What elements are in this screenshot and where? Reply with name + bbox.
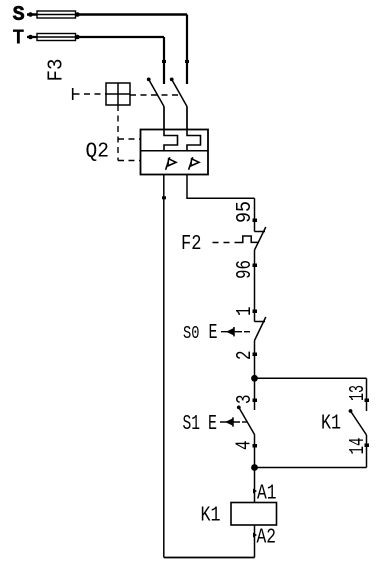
wire S vertical drop (186, 15, 188, 85)
dashed link F2 (213, 242, 237, 244)
overload box Q2 (141, 130, 209, 175)
terminal tick pole S (185, 60, 189, 63)
svg-text:K1: K1 (201, 505, 221, 528)
wire T vertical drop (163, 37, 165, 84)
wire junction to coil (254, 468, 256, 503)
junction node top (251, 375, 258, 382)
wire S horizontal (27, 13, 187, 16)
svg-text:Q2: Q2 (86, 141, 110, 164)
coil K1 (231, 503, 277, 526)
svg-text:3: 3 (234, 395, 257, 405)
contact S0 NC stop button (255, 317, 266, 341)
svg-text:A2: A2 (257, 527, 277, 550)
svg-text:4: 4 (234, 441, 257, 451)
terminal 14 tick (365, 444, 370, 448)
dashed link to overload box top (118, 138, 141, 140)
wire pole2 drop to control (187, 175, 255, 199)
wire S0 to junction (254, 341, 256, 379)
breaker Q2 manual actuator bar (72, 88, 74, 100)
terminal 2 tick (253, 353, 258, 357)
dashed link actuator to square (74, 93, 107, 95)
svg-text:96: 96 (234, 260, 257, 279)
wire to K1 branch top (255, 377, 367, 379)
breaker Q2 pole 1 contact blade (147, 78, 164, 131)
svg-text:K1: K1 (321, 413, 341, 436)
heater element pole 2 (187, 130, 201, 151)
svg-text:F3: F3 (46, 59, 69, 82)
wire F2 to S0 (254, 250, 256, 322)
wire K1 branch bottom (255, 467, 367, 469)
wire coil to bottom (254, 525, 256, 558)
heater element pole 1 (164, 130, 178, 151)
S0 pushbutton actuator E (209, 322, 253, 345)
breaker Q2 pole 2 contact blade (170, 78, 187, 131)
svg-text:95: 95 (234, 201, 257, 223)
contact F2 NC (255, 227, 266, 250)
svg-text:E: E (209, 322, 218, 345)
wire T horizontal (27, 36, 164, 38)
svg-text:T: T (12, 28, 24, 51)
svg-text:2: 2 (234, 351, 257, 361)
dashed link to overload box bottom (118, 160, 141, 162)
thermal relay symbol (236, 236, 259, 243)
fuse F3 pole S (28, 11, 80, 18)
dashed link square to contacts (130, 94, 181, 96)
wire K1 branch lower terminal (366, 435, 368, 468)
trip release symbol pole 1 (166, 157, 176, 170)
wire bottom return (164, 557, 255, 559)
svg-text:E: E (208, 413, 217, 436)
S1 pushbutton actuator E (208, 413, 248, 436)
terminal 13 tick (365, 399, 370, 403)
junction node bottom (251, 464, 258, 471)
terminal tick left rail (162, 196, 166, 199)
wire K1 branch upper terminal (366, 378, 368, 411)
svg-text:S1: S1 (183, 413, 201, 436)
dashed link square down (117, 105, 119, 161)
svg-text:S: S (13, 4, 25, 27)
terminal 3 tick (253, 399, 258, 403)
svg-text:1: 1 (234, 307, 257, 317)
svg-text:S0: S0 (183, 323, 200, 344)
svg-text:14: 14 (347, 438, 370, 455)
wire left rail (163, 175, 165, 558)
fuse F3 pole T (28, 34, 80, 41)
contact K1 NO auxiliary (349, 409, 367, 435)
terminal 96 tick (253, 264, 258, 268)
trip release symbol pole 2 (189, 157, 199, 170)
breaker Q2 operator square (106, 83, 130, 105)
terminal 4 tick (253, 444, 258, 448)
svg-text:13: 13 (347, 385, 370, 401)
svg-text:F2: F2 (181, 233, 202, 256)
terminal A1 tick (253, 489, 257, 494)
wire control branch down to F2 (254, 198, 256, 231)
terminal 1 tick (253, 310, 258, 314)
terminal A2 tick (253, 533, 257, 538)
wire S1 lower terminal (254, 435, 256, 468)
terminal tick pole T (162, 60, 166, 63)
wire S1 upper terminal (254, 378, 256, 410)
terminal 95 tick (253, 219, 258, 223)
contact S1 NO start button (237, 406, 255, 435)
